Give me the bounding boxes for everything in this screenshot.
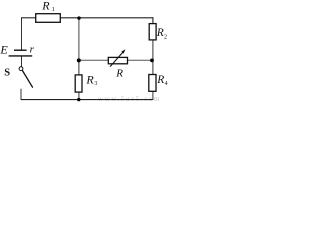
wire: left vertical from top corner down to battery	[21, 17, 23, 50]
label R1	[41, 0, 55, 13]
switch S blade (open)	[22, 71, 32, 88]
svg-text:4: 4	[165, 81, 168, 87]
svg-text:R: R	[85, 73, 94, 87]
wire: switch fixed contact lead down to bottom-left corner	[20, 89, 22, 100]
wire: node A down to node B	[78, 18, 80, 60]
label R2	[156, 27, 167, 41]
wire: top-left corner to R1 left terminal	[22, 17, 36, 19]
svg-text:2: 2	[164, 34, 167, 40]
node C junction dot (mid right)	[150, 59, 154, 63]
svg-text:R: R	[156, 74, 164, 86]
wire: node A to top-right corner	[79, 17, 153, 19]
svg-text:E: E	[0, 42, 8, 56]
battery E r : short top plate	[14, 49, 27, 51]
svg-text:R: R	[115, 67, 123, 79]
resistor R2 (top right vertical box)	[149, 24, 156, 40]
svg-text:S: S	[4, 67, 10, 78]
resistor R1 (top horizontal box)	[36, 14, 61, 23]
wire: R2 bottom to node C	[152, 39, 154, 60]
wire: node C down to R4 top	[152, 60, 154, 75]
battery E r : long bottom plate	[9, 55, 33, 57]
node B junction dot (mid left)	[77, 58, 81, 62]
watermark faint text bottom right	[98, 95, 161, 103]
label R4	[156, 74, 167, 87]
wire: battery bottom plate to switch pivot	[21, 56, 23, 67]
wire: rheostat right terminal to node C	[127, 59, 153, 61]
node D junction dot (bottom)	[77, 98, 80, 101]
switch S pivot circle	[19, 67, 23, 71]
svg-text:1: 1	[52, 7, 55, 13]
wire: R4 bottom to bottom rail	[152, 91, 154, 100]
svg-text:3: 3	[94, 81, 97, 87]
wire: node B to rheostat left terminal	[79, 59, 109, 61]
wire: top-right corner down to R2 top	[152, 17, 154, 24]
svg-text:R: R	[156, 27, 164, 39]
rheostat arrow head	[121, 49, 125, 53]
rheostat R box	[108, 57, 127, 63]
rheostat arrow shaft	[110, 51, 124, 66]
svg-text:www.5ue5.com: www.5ue5.com	[98, 95, 161, 103]
svg-text:R: R	[41, 0, 50, 12]
wire: R3 bottom to bottom rail (node D)	[78, 92, 80, 100]
svg-text:r: r	[30, 44, 35, 56]
wire: R1 right terminal to node A	[60, 17, 79, 19]
wire: node B down to R3 top	[78, 60, 80, 75]
wire: bottom rail	[21, 99, 153, 101]
resistor R3 (middle vertical box)	[75, 75, 82, 92]
resistor R4 (bottom right vertical box)	[149, 75, 156, 92]
node A junction dot (top)	[77, 16, 80, 19]
label R3	[85, 73, 97, 87]
